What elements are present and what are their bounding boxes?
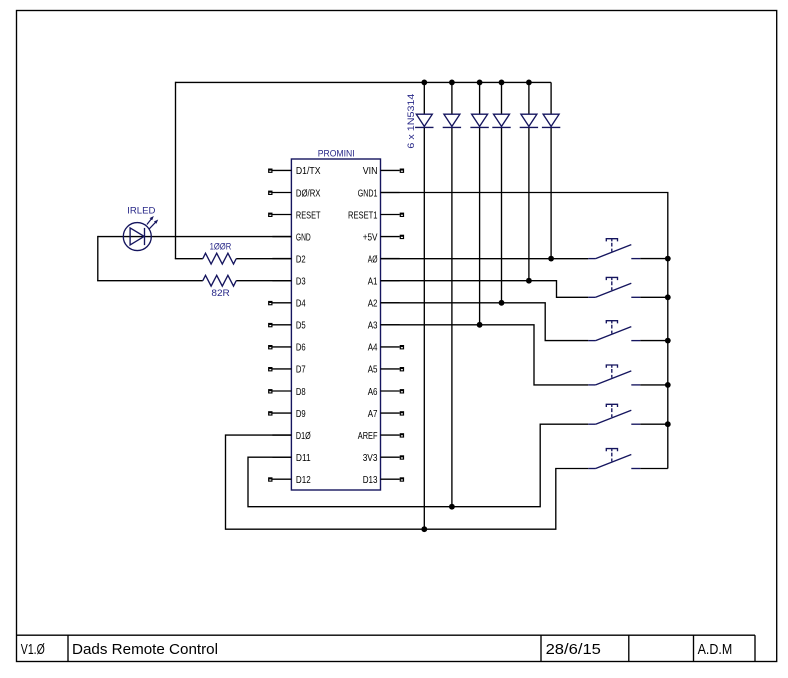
diode D1 1N5314 — [415, 114, 433, 127]
wire diode D1 cathode (down) — [423, 127, 425, 529]
svg-text:AREF: AREF — [358, 431, 378, 442]
pin D0/RX (left) — [268, 188, 321, 199]
pin A5 (right) — [368, 365, 404, 376]
pin +5V (right) — [363, 232, 404, 243]
wire diode D4 anode (top) — [501, 82, 503, 114]
pin D11 (left) — [272, 453, 311, 464]
pin D13 (right) — [363, 475, 404, 486]
pin D7 (left) — [268, 365, 306, 376]
wire diode D3 cathode (down) — [479, 127, 481, 324]
pin D10 (left) — [272, 431, 310, 442]
resistor R1 100R — [203, 253, 236, 264]
wire top-left vertical to D2 net — [175, 82, 177, 259]
wire D3 net to resistor R2 — [97, 280, 203, 282]
junction — [449, 504, 455, 510]
wire A1 to switch S2 — [381, 281, 589, 298]
pin A7 (right) — [368, 409, 404, 420]
svg-text:V1.Ø: V1.Ø — [21, 642, 45, 658]
svg-text:82R: 82R — [211, 288, 230, 299]
svg-text:D8: D8 — [296, 387, 306, 398]
svg-text:D5: D5 — [296, 321, 306, 332]
svg-text:28/6/15: 28/6/15 — [546, 642, 601, 658]
pin GND1 (right) — [358, 188, 400, 199]
pin A3 (right) — [368, 321, 400, 332]
wire A2 to switch S3 — [381, 303, 589, 341]
junction — [421, 526, 427, 532]
junction — [665, 294, 671, 300]
wire diode D5 anode (top) — [528, 82, 530, 114]
junction — [477, 80, 483, 86]
svg-text:D3: D3 — [296, 277, 306, 288]
svg-text:D7: D7 — [296, 365, 306, 376]
wire diode D3 anode (top) — [479, 82, 481, 114]
wire A0 to switch S1 — [381, 258, 589, 260]
wire D11 wrap-around to switch S5 — [248, 424, 588, 507]
pin D2 (left) — [272, 254, 306, 265]
svg-text:1ØØR: 1ØØR — [210, 241, 232, 252]
junction — [548, 256, 554, 262]
svg-text:GND1: GND1 — [358, 188, 378, 199]
svg-text:VIN: VIN — [363, 166, 378, 177]
pin A1 (right) — [368, 277, 400, 288]
wire switch S4 to right bus — [640, 384, 668, 386]
svg-text:+5V: +5V — [363, 232, 378, 243]
wire D2 to resistor R1 — [175, 258, 203, 260]
pin D12 (left) — [268, 475, 311, 486]
diode D3 1N5314 — [470, 114, 488, 127]
pin D9 (left) — [268, 409, 306, 420]
switch S5 — [588, 404, 640, 424]
svg-text:IRLED: IRLED — [127, 206, 155, 217]
svg-text:A3: A3 — [368, 321, 378, 332]
junction — [665, 421, 671, 427]
switch S3 — [588, 321, 640, 341]
svg-text:D9: D9 — [296, 409, 306, 420]
svg-text:A5: A5 — [368, 365, 378, 376]
pin D5 (left) — [268, 321, 306, 332]
junction — [499, 80, 505, 86]
LED LED1 IRLED — [123, 216, 158, 251]
pin D1/TX (left) — [268, 166, 321, 177]
pin A0 (right) — [368, 254, 400, 265]
svg-text:A2: A2 — [368, 299, 378, 310]
switch S2 — [588, 277, 640, 297]
wire D10 wrap-around to switch S6 — [226, 435, 589, 529]
switch S4 — [588, 365, 640, 385]
wire diode D1 anode (top) — [423, 82, 425, 114]
svg-text:D1/TX: D1/TX — [296, 166, 321, 177]
title block — [17, 635, 756, 661]
svg-text:D1Ø: D1Ø — [296, 431, 311, 442]
pin D6 (left) — [268, 343, 306, 354]
pin 3V3 (right) — [363, 453, 404, 464]
junction — [449, 80, 455, 86]
svg-text:A.D.M: A.D.M — [698, 642, 733, 658]
wire GND1 to right bus — [381, 193, 668, 469]
svg-text:A6: A6 — [368, 387, 378, 398]
junction — [477, 322, 483, 328]
junction — [421, 80, 427, 86]
junction — [499, 300, 505, 306]
pin RESET1 (right) — [348, 210, 404, 221]
wire switch S3 to right bus — [640, 340, 668, 342]
wire A3 to switch S4 — [381, 325, 589, 385]
svg-text:3V3: 3V3 — [363, 453, 378, 464]
svg-text:6 x 1N5314: 6 x 1N5314 — [406, 94, 417, 149]
diode D2 1N5314 — [443, 114, 461, 127]
pin A2 (right) — [368, 299, 400, 310]
svg-text:D6: D6 — [296, 343, 306, 354]
svg-text:D12: D12 — [296, 475, 311, 486]
wire resistor R1 to pin D2 — [236, 258, 291, 260]
svg-text:RESET1: RESET1 — [348, 210, 378, 221]
wire diode D2 cathode (down) — [451, 127, 453, 506]
wire switch S6 to right bus — [640, 468, 668, 470]
pin D8 (left) — [268, 387, 306, 398]
wire resistor R2 to pin D3 — [236, 280, 291, 282]
junction — [665, 382, 671, 388]
pin A4 (right) — [368, 343, 404, 354]
wire switch S5 to right bus — [640, 423, 668, 425]
pin AREF (right) — [358, 431, 404, 442]
junction — [665, 338, 671, 344]
diode D6 1N5314 — [542, 114, 560, 127]
wire diode D5 cathode (down) — [528, 127, 530, 280]
wire diode D6 cathode (down) — [550, 127, 552, 258]
pin D3 (left) — [272, 277, 306, 288]
svg-text:GND: GND — [296, 232, 311, 243]
pin A6 (right) — [368, 387, 404, 398]
junction — [526, 80, 532, 86]
svg-text:DØ/RX: DØ/RX — [296, 188, 321, 199]
svg-text:D2: D2 — [296, 254, 306, 265]
wire diode D6 anode (top) — [550, 82, 552, 114]
wire top bus horizontal — [176, 81, 552, 83]
svg-text:AØ: AØ — [368, 254, 378, 265]
pin VIN (right) — [363, 166, 404, 177]
resistor R2 82R — [203, 275, 236, 286]
junction — [665, 256, 671, 262]
svg-text:A7: A7 — [368, 409, 378, 420]
diode D5 1N5314 — [520, 114, 538, 127]
svg-text:Dads Remote Control: Dads Remote Control — [72, 642, 218, 658]
wire diode D2 anode (top) — [451, 82, 453, 114]
svg-text:A4: A4 — [368, 343, 378, 354]
pin RESET (left) — [268, 210, 320, 221]
svg-text:D11: D11 — [296, 453, 311, 464]
svg-text:PROMINI: PROMINI — [318, 148, 355, 159]
wire switch S2 to right bus — [640, 296, 668, 298]
pin GND (left) — [272, 232, 310, 243]
wire GND pin to LED — [98, 236, 292, 238]
svg-text:A1: A1 — [368, 277, 378, 288]
svg-text:D13: D13 — [363, 475, 378, 486]
svg-text:D4: D4 — [296, 299, 306, 310]
switch S6 — [588, 449, 640, 469]
svg-text:RESET: RESET — [296, 210, 321, 221]
wire diode D4 cathode (down) — [501, 127, 503, 302]
switch S1 — [588, 239, 640, 259]
IC U1 PROMINI body — [291, 159, 380, 490]
diode D4 1N5314 — [492, 114, 510, 127]
wire switch S1 to right bus — [640, 258, 668, 260]
wire LED-left vertical down to D3 net — [97, 236, 99, 281]
junction — [526, 278, 532, 284]
pin D4 (left) — [268, 299, 306, 310]
